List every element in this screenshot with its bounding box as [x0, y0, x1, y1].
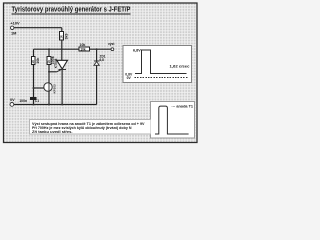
- svg-text:0V: 0V: [127, 76, 132, 80]
- svg-text:10k: 10k: [36, 58, 40, 64]
- svg-text:KP103: KP103: [52, 84, 56, 94]
- svg-text:Zři tanku uvedl střes.: Zři tanku uvedl střes.: [32, 129, 73, 134]
- svg-text:10k: 10k: [80, 43, 86, 47]
- svg-text:100n: 100n: [19, 99, 27, 103]
- svg-text:1,62 c/sec: 1,62 c/sec: [170, 64, 190, 68]
- svg-text:1k: 1k: [31, 60, 35, 64]
- svg-text:Tyristorovy pravoúhlý generáto: Tyristorovy pravoúhlý generátor s J-FET/…: [12, 4, 131, 13]
- svg-text:6,8V: 6,8V: [133, 48, 141, 52]
- svg-text:3k9: 3k9: [64, 34, 68, 40]
- svg-text:+10V: +10V: [10, 21, 20, 26]
- svg-text:0V: 0V: [10, 98, 15, 102]
- svg-text:1k: 1k: [59, 35, 63, 39]
- svg-text:10k: 10k: [80, 47, 86, 51]
- svg-text:6,8: 6,8: [100, 58, 105, 62]
- svg-text:KT508: KT508: [54, 58, 58, 68]
- svg-text:výst: výst: [108, 42, 115, 46]
- svg-text:C1: C1: [35, 99, 39, 103]
- svg-text:··· anoda T1: ··· anoda T1: [172, 105, 194, 109]
- svg-text:1M: 1M: [11, 31, 16, 36]
- svg-text:1k: 1k: [47, 60, 51, 64]
